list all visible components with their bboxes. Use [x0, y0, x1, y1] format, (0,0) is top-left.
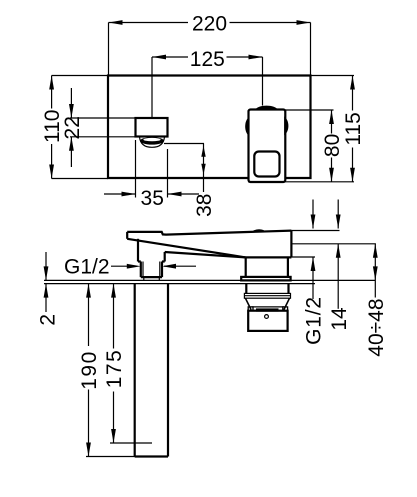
dim 125 extension left (to spout centre) — [151, 57, 153, 118]
svg-text:38: 38 — [193, 194, 216, 217]
nut — [248, 311, 287, 331]
dim 35 extension lines — [135, 140, 137, 198]
handle top dome — [255, 106, 278, 110]
G1/2 arrow right — [164, 265, 196, 267]
svg-text:220: 220 — [192, 12, 227, 35]
svg-text:35: 35 — [141, 187, 164, 210]
handle right crescent — [284, 117, 288, 136]
spout right step — [164, 252, 166, 262]
collar — [244, 293, 290, 298]
wall plate rectangle (bottom edge broken behind handle) — [108, 76, 311, 179]
lever top edge — [127, 231, 291, 235]
dimension 110 — [51, 76, 53, 109]
dimension 80 — [331, 110, 333, 134]
dark seal band — [256, 308, 279, 311]
lever top small dome — [254, 230, 264, 231]
svg-text:175: 175 — [103, 349, 126, 389]
deck top line — [44, 279, 376, 281]
dimension 2 (deck thickness) — [45, 252, 47, 280]
svg-text:2: 2 — [36, 314, 59, 326]
extension line body step — [291, 256, 315, 258]
dimension 35 (outside arrows) — [104, 193, 136, 195]
svg-text:G1/2: G1/2 — [64, 256, 110, 279]
handle inner square — [254, 152, 279, 177]
body flange — [241, 277, 290, 281]
spout aerator outline — [140, 137, 165, 148]
svg-text:80: 80 — [321, 134, 344, 157]
175 extension (aerator depth) — [110, 442, 152, 444]
190 extension at tube bottom — [86, 456, 135, 458]
dim 220 extension right — [310, 23, 312, 76]
washer tabs — [252, 306, 285, 308]
lever underside — [127, 239, 246, 258]
lever left tip edge — [126, 232, 128, 239]
dim 110 extension bottom — [52, 178, 108, 180]
spout top slope to body — [165, 252, 246, 257]
svg-text:115: 115 — [342, 112, 365, 145]
tube bottom edge — [135, 455, 168, 457]
dim 125 extension right (to handle centre) — [262, 57, 264, 106]
dim 80/115 extension bottom — [248, 181, 354, 183]
spout left edge (side) — [137, 239, 139, 262]
dimension 190 — [88, 284, 90, 346]
handle body (front) — [249, 110, 286, 183]
spout tube below deck — [134, 284, 136, 457]
dimension 175 — [113, 284, 115, 349]
svg-text:14: 14 — [328, 307, 351, 331]
dimension 220 — [109, 22, 189, 24]
label G1/2 right (leader) — [312, 257, 314, 299]
lever right edge — [290, 230, 292, 257]
svg-text:190: 190 — [78, 350, 101, 390]
svg-text:22: 22 — [61, 116, 84, 139]
extension line A (lever top) — [291, 230, 339, 232]
leader down-arrow to lever top (G1/2 line) — [312, 200, 314, 229]
svg-text:G1/2: G1/2 — [303, 296, 326, 345]
handle left crescent — [245, 117, 249, 137]
cone washer — [245, 298, 289, 310]
shank below deck — [245, 284, 247, 294]
dim 115 extension top — [311, 75, 355, 77]
dim 80 extension top — [285, 109, 334, 111]
spout aerator dark ring — [140, 137, 164, 144]
G1/2 nipple — [140, 262, 142, 278]
extension line B (14 lower) — [291, 243, 376, 245]
G1/2 arrow left — [111, 265, 131, 267]
deck bottom line — [44, 283, 315, 285]
dimension 125 — [152, 56, 188, 58]
spout body (front) — [136, 118, 168, 137]
spout bottom left — [138, 260, 141, 262]
dimension 14 — [337, 244, 339, 309]
leader down-arrow to lever top (14 line) — [337, 200, 339, 229]
mixer body (side) — [246, 256, 292, 258]
dimension 38 — [203, 144, 205, 193]
dim 110 extension top — [52, 75, 108, 77]
svg-text:40÷48: 40÷48 — [365, 298, 388, 356]
svg-text:125: 125 — [190, 48, 225, 71]
dim 38 extension line — [164, 143, 204, 145]
dim 22 extension lines — [70, 117, 136, 119]
spout bottom right — [162, 260, 165, 262]
dim 220 extension left — [108, 23, 110, 76]
dimension 115 — [352, 76, 354, 111]
dimension 40÷48 — [374, 244, 376, 298]
dimension 22 (outside arrows) — [70, 88, 72, 118]
